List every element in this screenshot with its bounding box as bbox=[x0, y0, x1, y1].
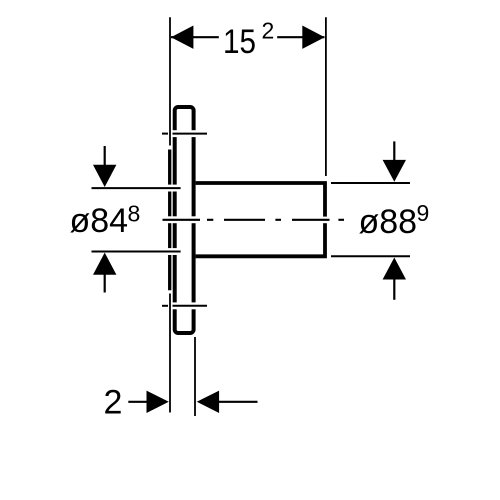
svg-text:ø84: ø84 bbox=[70, 202, 129, 240]
dimension ø88: lower extension line bbox=[331, 255, 410, 257]
svg-text:15: 15 bbox=[223, 23, 256, 61]
svg-text:2: 2 bbox=[262, 18, 275, 44]
svg-text:2: 2 bbox=[104, 383, 123, 421]
dimension ø84: upper extension line bbox=[92, 187, 181, 189]
dimension 2: left extension line bbox=[169, 294, 171, 413]
tick line lower (dash-dot) bbox=[162, 305, 207, 307]
dimension ø84: lower arrow bbox=[104, 274, 106, 293]
dimension 15: left extension line bbox=[169, 17, 171, 145]
dimension 15: right extension line bbox=[325, 17, 327, 176]
pipe outline bbox=[196, 183, 325, 256]
tick line upper (dash-dot) bbox=[162, 133, 207, 135]
dimension 2: right extension line bbox=[194, 337, 196, 416]
svg-text:ø88: ø88 bbox=[359, 203, 418, 241]
dimension ø88: lower arrow bbox=[393, 279, 395, 300]
gasket line left of flange bbox=[168, 150, 171, 291]
dimension 2: right arrow bbox=[218, 401, 258, 403]
dimension ø84: upper arrow bbox=[104, 146, 106, 166]
dimension 15: dimension line bbox=[171, 36, 325, 38]
flange body outline bbox=[175, 107, 194, 333]
dimension ø88: upper extension line bbox=[331, 182, 410, 184]
dimension 2: left arrow bbox=[128, 401, 147, 403]
svg-text:9: 9 bbox=[417, 200, 430, 226]
svg-text:8: 8 bbox=[128, 201, 141, 227]
dimension ø84: lower extension line bbox=[92, 251, 181, 253]
centerline (dash-dot axis) bbox=[163, 219, 345, 221]
white breaks where dimension lines cross the flange bbox=[167, 130, 329, 309]
dimension ø88: upper arrow bbox=[393, 141, 395, 161]
dimension 15: right arrowhead bbox=[302, 26, 324, 49]
dimension 15: left arrowhead bbox=[171, 26, 193, 49]
